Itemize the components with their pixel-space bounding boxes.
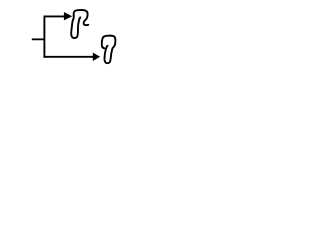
arrowhead into Q2 — [93, 53, 100, 62]
device Q1 — [71, 10, 88, 38]
arrowhead into Q1 — [64, 12, 72, 20]
wire vertical bus — [43, 16, 45, 58]
device Q2 — [102, 36, 116, 64]
wire bottom branch — [44, 56, 93, 58]
wire input stub — [32, 38, 45, 40]
wire top branch — [44, 15, 64, 17]
